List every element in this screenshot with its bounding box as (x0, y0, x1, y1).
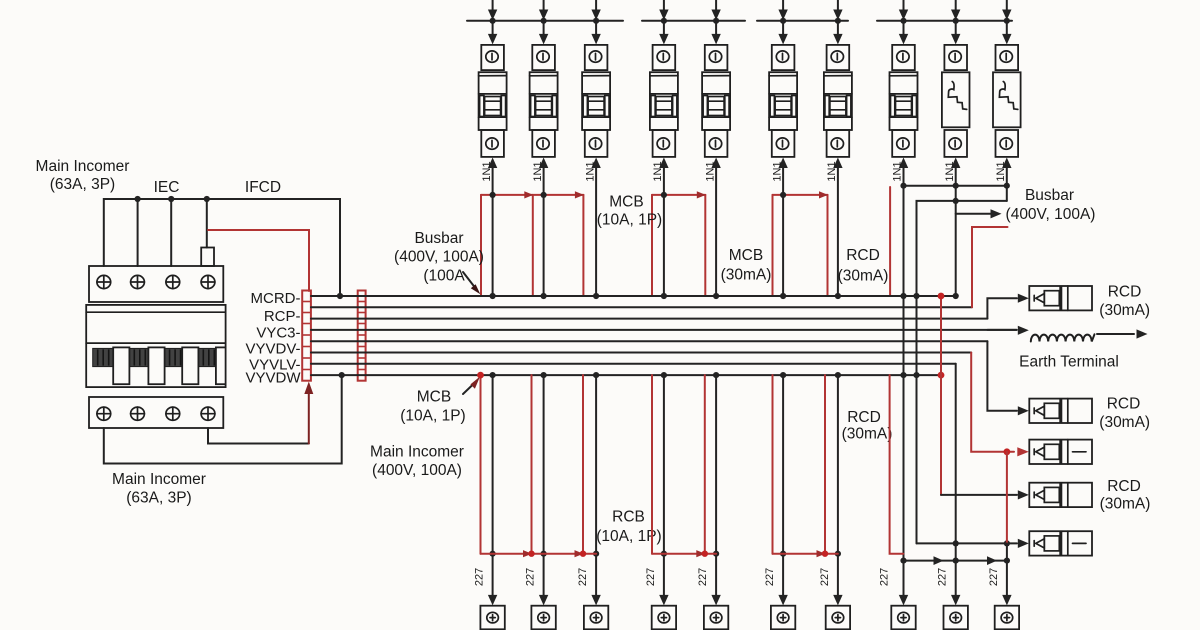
MCB CB7 (branch breaker) (824, 45, 852, 157)
wire supply drop into MCB1 (488, 0, 497, 44)
wire busbar line L3 (311, 318, 987, 320)
label RCD (30mA) U1 (1099, 284, 1150, 320)
wire circuit 3 drop from busbar L8 (591, 372, 600, 605)
svg-text:Busbar: Busbar (1025, 187, 1074, 204)
MCB CB2 (MCB 10A 1P) (530, 45, 558, 157)
wire red link rail group3 (773, 191, 829, 296)
label Busbar (400V, 100A) (100A left (394, 230, 484, 285)
svg-text:(400V, 100A): (400V, 100A) (1006, 206, 1096, 223)
wire supply drop into MCB2 (539, 0, 548, 44)
wire breaker pole4 output (208, 428, 309, 444)
RCD U3 (1029, 440, 1092, 464)
label phase marker 1N1 of MCB3 (584, 161, 596, 181)
wire busbar line L4 (311, 329, 1017, 331)
svg-text:Main Incomer: Main Incomer (112, 471, 206, 488)
wire MCB4 output to busbar L1 (659, 158, 668, 300)
label phase marker 1N1 of MCB4 (652, 161, 664, 181)
svg-text:(10A, 1P): (10A, 1P) (597, 212, 662, 229)
junction dots group4 columns (900, 293, 919, 378)
svg-text:227: 227 (764, 568, 776, 586)
wire red feed group4 (889, 187, 891, 296)
wire red return circuit 1 (480, 375, 482, 554)
wire red return circuit 2 (531, 375, 533, 554)
label MCB (10A, 1P) lower (400, 389, 465, 425)
wire busbar line L8 (311, 374, 941, 376)
wire MCB2 output to busbar L1 (539, 158, 548, 300)
wire circuit 2 drop from busbar L8 (539, 372, 548, 605)
label phase marker 1N1 of MCB10 (995, 161, 1007, 181)
svg-text:Main Incomer: Main Incomer (36, 158, 130, 175)
RCD U1 (30mA) (1029, 286, 1092, 310)
svg-text:RCD: RCD (1108, 284, 1142, 301)
MCB CB8 (branch breaker) (890, 45, 918, 157)
svg-text:IEC: IEC (154, 179, 180, 196)
svg-text:(63A, 3P): (63A, 3P) (50, 176, 115, 193)
svg-text:1N1: 1N1 (704, 161, 716, 181)
label Busbar (400V, 100A) right (1006, 187, 1096, 223)
svg-text:MCB: MCB (609, 194, 643, 211)
wire red tap pole4 to busbar riser top (208, 230, 309, 291)
busbar section right (red riser) (358, 291, 366, 381)
wire T9 drop (1002, 543, 1011, 605)
label load marker circuit 5 (697, 568, 709, 586)
label MCB (10A, 1P) upper (597, 194, 662, 229)
label RCD (30mA) upper middle (838, 247, 889, 285)
label load marker circuit 2 (525, 568, 537, 586)
wire earth terminal outgoing arrow (1097, 329, 1148, 338)
wire feeder line B (642, 20, 745, 22)
terminal outgoing circuit 8 (891, 606, 915, 630)
wire busbar line L2 (311, 306, 972, 308)
svg-text:RCD: RCD (1107, 396, 1141, 413)
svg-text:(10A, 1P): (10A, 1P) (400, 408, 465, 425)
wire busbar L4 to earth terminal (987, 326, 1028, 335)
wire group4 tie bar upper (900, 183, 1010, 189)
wire busbar line L6 (311, 352, 971, 354)
terminal outgoing circuit 3 (584, 606, 608, 630)
svg-text:(30mA): (30mA) (1099, 302, 1150, 319)
MCB CB10 (branch breaker) (993, 45, 1021, 157)
wire MCB8 output column to bottom terminal row (899, 158, 908, 606)
label load marker circuit 7 (819, 568, 831, 586)
svg-text:1N1: 1N1 (944, 161, 956, 181)
wire supply drop into MCB9 (951, 0, 960, 44)
svg-text:227: 227 (577, 568, 589, 586)
wire supply drop into MCB3 (591, 0, 600, 44)
wire red return circuit 3 (582, 375, 584, 554)
wire busbar line L1 (311, 295, 956, 297)
wire leader to Busbar 400V label (956, 209, 1002, 218)
wire MCB9 output to busbar L1 right end (951, 158, 960, 297)
svg-text:Busbar: Busbar (414, 230, 463, 247)
svg-text:1N1: 1N1 (652, 161, 664, 181)
label RCD (30mA) U2 (1099, 396, 1150, 432)
svg-text:(63A, 3P): (63A, 3P) (126, 490, 191, 507)
svg-text:RCP-: RCP- (264, 308, 301, 325)
wire incoming supply bus to breaker poles (104, 196, 343, 299)
svg-text:RCB: RCB (612, 509, 645, 526)
wire MCB7 output to busbar L1 (833, 158, 842, 300)
svg-text:227: 227 (937, 568, 949, 586)
svg-text:(30mA): (30mA) (1099, 414, 1150, 431)
svg-text:227: 227 (697, 568, 709, 586)
main incomer breaker Q1 (63A 3P) (86, 266, 225, 428)
wire supply drop into MCB5 (711, 0, 720, 44)
wire circuit 5 drop from busbar L8 (711, 372, 720, 605)
label RCB (10A, 1P) (596, 509, 661, 546)
wire group4 column2 to RCD U5 (917, 539, 1029, 548)
svg-text:RCD: RCD (847, 409, 881, 426)
svg-text:MCB: MCB (417, 389, 451, 406)
wire supply drop into MCB6 (778, 0, 787, 44)
svg-text:MCRD-: MCRD- (251, 290, 301, 307)
wire red drop from U3 junction to U5 line (1006, 452, 1008, 544)
wire red return circuit 6 (772, 375, 774, 554)
wire red link rail group1 (481, 191, 584, 296)
wire red return circuit 5 (704, 375, 706, 554)
label phase marker 1N1 of MCB8 (892, 161, 904, 181)
RCD U4 (30mA) (1029, 483, 1092, 507)
terminal outgoing circuit 9 (944, 606, 968, 630)
terminal outgoing circuit 2 (531, 606, 555, 630)
svg-text:(30mA): (30mA) (838, 268, 889, 285)
busbar section left (red riser) (302, 291, 311, 381)
svg-text:1N1: 1N1 (892, 161, 904, 181)
MCB CB5 (branch breaker) (702, 45, 730, 157)
label load marker circuit 10 (988, 568, 1000, 586)
label load marker circuit 3 (577, 568, 589, 586)
wire red link rail bottom group1 (481, 550, 597, 557)
label phase marker 1N1 of MCB6 (771, 161, 783, 181)
svg-text:1N1: 1N1 (584, 161, 596, 181)
terminal outgoing circuit 1 (480, 606, 504, 630)
wire feeder line A (467, 20, 623, 22)
wire supply drop into MCB10 (1002, 0, 1011, 44)
label MCB (30mA) (721, 247, 772, 284)
wire red busbar L8 end junction (938, 372, 945, 379)
label phase marker 1N1 of MCB5 (704, 161, 716, 181)
wire busbar L1 end junction (953, 293, 959, 299)
RCD U5 (1029, 531, 1092, 555)
label load marker circuit 1 (474, 568, 486, 586)
wire feeder line C (757, 20, 848, 22)
label phase marker 1N1 of MCB7 (826, 161, 838, 181)
svg-text:RCD: RCD (846, 247, 880, 264)
svg-text:(400V, 100A): (400V, 100A) (372, 462, 462, 479)
RCD U2 (30mA) (1029, 399, 1092, 423)
MCB CB3 (MCB 10A 1P) (582, 45, 610, 157)
wire supply drop into MCB8 (899, 0, 908, 44)
svg-text:1N1: 1N1 (481, 161, 493, 181)
wire MCB10 output stub (1002, 158, 1011, 201)
svg-text:1N1: 1N1 (532, 161, 544, 181)
svg-text:1N1: 1N1 (826, 161, 838, 181)
terminal outgoing circuit 6 (771, 606, 795, 630)
wire red link rail bottom group2 (652, 550, 716, 557)
label phase marker 1N1 of MCB1 (481, 161, 493, 181)
wire MCB1 output to busbar L1 (488, 158, 497, 300)
terminal outgoing circuit 5 (704, 606, 728, 630)
svg-text:227: 227 (819, 568, 831, 586)
wire red busbar L6 to RCD U3 (971, 353, 1029, 457)
label phase marker 1N1 of MCB9 (944, 161, 956, 181)
label RCD (30mA) U4 (1100, 478, 1151, 513)
terminal outgoing circuit 7 (826, 606, 850, 630)
svg-text:VYVDW: VYVDW (245, 370, 301, 387)
svg-text:(100A: (100A (423, 268, 465, 285)
svg-text:227: 227 (525, 568, 537, 586)
label phase marker 1N1 of MCB2 (532, 161, 544, 181)
svg-text:1N1: 1N1 (771, 161, 783, 181)
label load marker circuit 4 (645, 568, 657, 586)
svg-text:RCD: RCD (1107, 478, 1141, 495)
wire leader from MCB label to busbar L8 (463, 377, 480, 395)
terminal outgoing circuit 10 (995, 606, 1019, 630)
wire red L1-L8 riser to RCD U4 (938, 293, 945, 495)
svg-text:Earth Terminal: Earth Terminal (1019, 354, 1119, 371)
svg-text:VYVDV-: VYVDV- (245, 341, 300, 358)
wire MCB3 output to busbar L1 (591, 158, 600, 300)
wire busbar L5 to RCD U2 (987, 341, 1028, 415)
svg-text:(30mA): (30mA) (842, 426, 893, 443)
wire breaker pole1 output to busbar L8 (104, 372, 345, 464)
svg-text:227: 227 (879, 568, 891, 586)
svg-text:227: 227 (988, 568, 1000, 586)
wire busbar line L7 (311, 363, 956, 365)
wire to RCD U4 (941, 490, 1029, 499)
wire red return into riser bottom (304, 382, 313, 444)
terminal outgoing circuit 4 (652, 606, 676, 630)
svg-text:227: 227 (645, 568, 657, 586)
MCB CB4 (branch breaker) (650, 45, 678, 157)
wire red drop left of group4 (890, 375, 904, 554)
wire MCB5 output to busbar L1 (711, 158, 720, 300)
wire supply drop into MCB4 (659, 0, 668, 44)
wire circuit 1 drop from busbar L8 (488, 372, 497, 605)
wire leader from (100A to busbar L1 (463, 272, 480, 294)
svg-text:(30mA): (30mA) (721, 267, 772, 284)
earth terminal coil (1031, 334, 1095, 341)
wire circuit 4 drop from busbar L8 (659, 372, 668, 605)
label load marker circuit 9 (937, 568, 949, 586)
MCB CB9 (branch breaker) (942, 45, 970, 157)
wire red return circuit 4 (651, 375, 653, 554)
wire busbar line L5 (311, 340, 987, 342)
wire red link busbar L2 up (972, 227, 1008, 307)
label Main Incomer (400V, 100A) (370, 444, 464, 480)
wire feeder line D (877, 20, 1012, 22)
wire red link rail group2 (652, 191, 706, 296)
MCB CB6 (branch breaker) (769, 45, 797, 157)
wire busbar L7 down to terminal T8 (951, 364, 960, 606)
wire red return circuit 7 (824, 375, 826, 554)
svg-text:(30mA): (30mA) (1100, 496, 1151, 513)
svg-text:(400V, 100A): (400V, 100A) (394, 249, 484, 266)
label RCD (30mA) lower middle (842, 409, 893, 443)
wire busbar L3 to RCD U1 (987, 294, 1028, 319)
wire group4 tie bar lower (917, 198, 1007, 544)
svg-text:1N1: 1N1 (995, 161, 1007, 181)
terminal tab pole 4 (201, 248, 214, 267)
wire terminal distribution bar (900, 556, 1010, 565)
label load marker circuit 6 (764, 568, 776, 586)
wire circuit 7 drop from busbar L8 (833, 372, 842, 605)
svg-text:MCB: MCB (729, 247, 763, 264)
wire circuit 6 drop from busbar L8 (778, 372, 787, 605)
wire red link rail bottom group3 (773, 550, 838, 557)
label load marker circuit 8 (879, 568, 891, 586)
svg-text:VYC3-: VYC3- (256, 325, 300, 342)
wire MCB6 output to busbar L1 (778, 158, 787, 300)
label Main Incomer (63A, 3P) top (36, 158, 130, 193)
svg-text:Main Incomer: Main Incomer (370, 444, 464, 461)
label Main Incomer (63A, 3P) bottom (112, 471, 206, 507)
svg-text:IFCD: IFCD (245, 179, 281, 196)
wire supply drop into MCB7 (833, 0, 842, 44)
MCB CB1 (MCB 10A 1P) (479, 45, 507, 157)
svg-text:227: 227 (474, 568, 486, 586)
red junction on L8 (477, 372, 484, 379)
